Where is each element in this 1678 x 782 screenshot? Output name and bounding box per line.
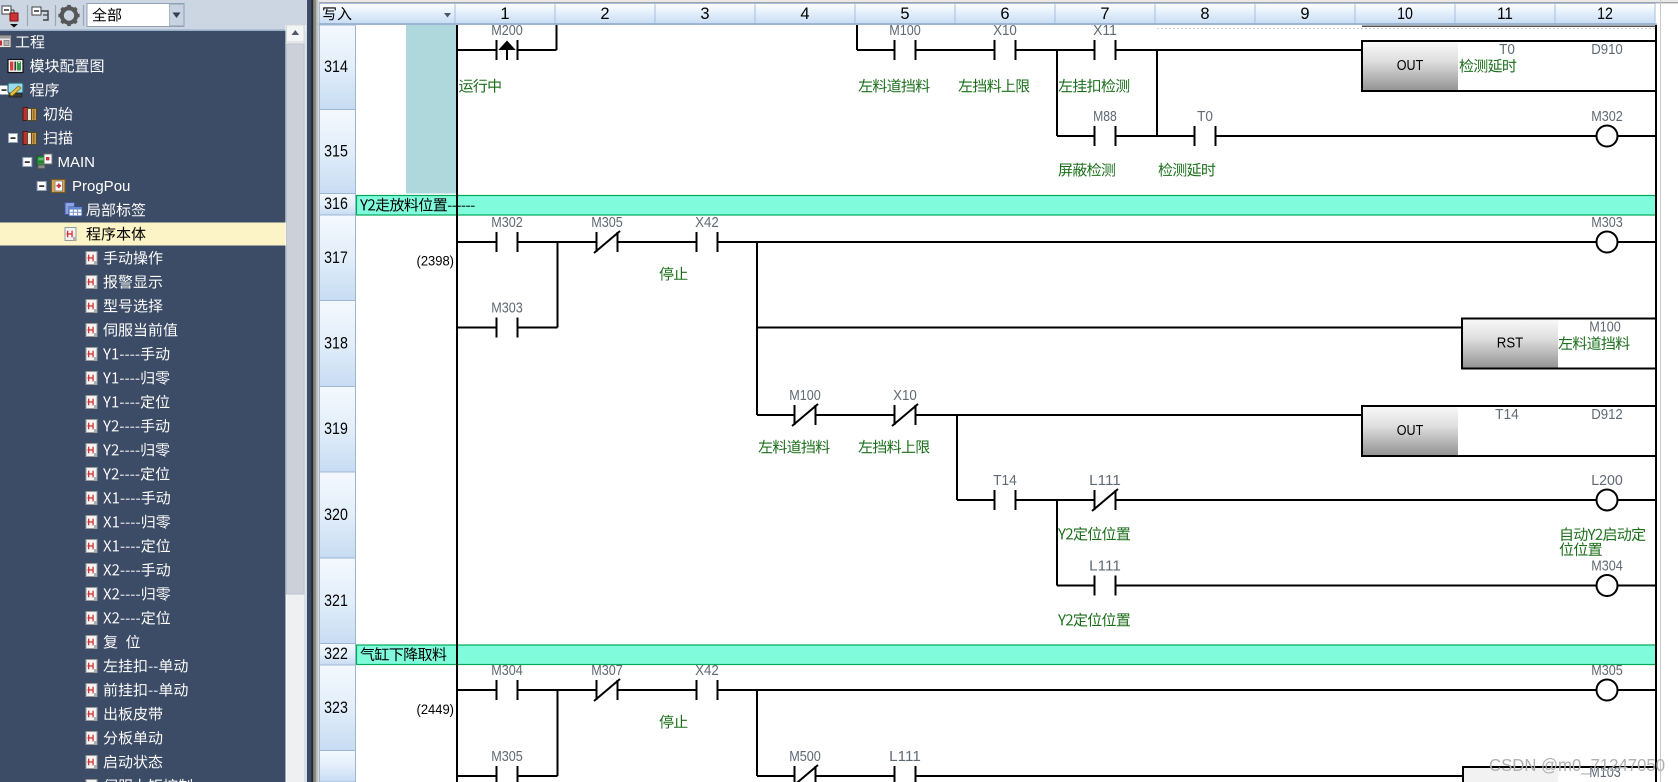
contact M302 [498, 240, 517, 245]
contact M200 rising edge [498, 48, 517, 53]
svg-text:X42: X42 [695, 215, 719, 231]
wire: branch vertical col1/2 [557, 242, 559, 328]
svg-text:M305: M305 [491, 749, 523, 765]
svg-text:11: 11 [1497, 5, 1513, 23]
wire: junction down to row315 (col6) [1056, 50, 1058, 136]
svg-text:M303: M303 [491, 301, 523, 317]
svg-text:9: 9 [1300, 5, 1309, 23]
svg-text:M304: M304 [1591, 559, 1623, 575]
contact T14 [996, 498, 1015, 503]
wire: branch M305 [457, 775, 558, 777]
svg-text:MAIN: MAIN [58, 154, 96, 171]
svg-text:M303: M303 [1591, 215, 1623, 231]
svg-text:OUT: OUT [1397, 423, 1424, 439]
coil L200 [1597, 490, 1618, 511]
svg-text:X10: X10 [993, 23, 1017, 39]
contact M303 [498, 325, 517, 330]
contact X42 [698, 240, 717, 245]
svg-text:T0: T0 [1499, 42, 1515, 58]
toolbar combo box "全部" [87, 4, 184, 27]
svg-text:L111: L111 [889, 749, 921, 765]
contact X10 NC [896, 413, 915, 418]
svg-text:M100: M100 [789, 388, 821, 404]
svg-text:10: 10 [1397, 5, 1413, 23]
svg-text:M100: M100 [889, 23, 921, 39]
wire: branch vertical col1/2 down [557, 690, 559, 776]
wire: row319 main [757, 414, 1362, 416]
coil M302 [1597, 126, 1618, 147]
OUT T0 D910 box [1362, 41, 1656, 91]
svg-text:1: 1 [500, 5, 509, 23]
svg-text:322: 322 [324, 645, 348, 663]
contact M307 NC [598, 688, 617, 693]
svg-text:T0: T0 [1197, 109, 1213, 125]
contact M304 [498, 688, 517, 693]
svg-text:317: 317 [324, 249, 348, 267]
wire: junction down to row320 [956, 415, 958, 500]
contact M100 NC [796, 413, 815, 418]
svg-text:315: 315 [324, 143, 348, 161]
contact T0 [1196, 134, 1215, 139]
toolbar icon: collapse-tree with PLC [2, 6, 18, 28]
svg-text:ProgPou: ProgPou [72, 178, 130, 195]
contact L111 [1096, 583, 1115, 588]
svg-text:D912: D912 [1591, 407, 1623, 423]
wire: junction vertical col3/4 down to row319 [756, 242, 758, 415]
contact L111 (3) [896, 774, 915, 779]
OUT T14 D912 box [1362, 406, 1656, 456]
contact L111 NC [1096, 498, 1115, 503]
wire: junction vertical col3/4 down [756, 690, 758, 776]
svg-text:M200: M200 [491, 23, 523, 39]
wire: row320 main [957, 499, 1656, 501]
contact M100 [896, 48, 915, 53]
svg-text:OUT: OUT [1397, 58, 1424, 74]
coil M304 [1597, 575, 1618, 596]
svg-text:3: 3 [700, 5, 709, 23]
svg-text:RST: RST [1497, 336, 1524, 352]
contact X42 (2) [698, 688, 717, 693]
svg-text:X11: X11 [1093, 23, 1117, 39]
wire: row321 main [1057, 585, 1656, 587]
contact M88 [1096, 134, 1115, 139]
SET M103 box (partial) [1463, 767, 1656, 782]
svg-text:5: 5 [900, 5, 909, 23]
svg-text:318: 318 [324, 335, 348, 353]
svg-text:L111: L111 [1089, 559, 1121, 575]
wire: main line row314 [857, 49, 1362, 51]
svg-text:4: 4 [800, 5, 809, 23]
svg-text:X10: X10 [893, 388, 917, 404]
svg-text:314: 314 [324, 58, 348, 76]
contact X11 [1096, 48, 1115, 53]
svg-text:M302: M302 [491, 215, 523, 231]
svg-text:T14: T14 [993, 473, 1017, 489]
toolbar icon: expand-tree [32, 7, 48, 20]
wire: row317 main [457, 241, 1656, 243]
wire: junction down to row315 (col7) [1156, 50, 1158, 136]
svg-text:7: 7 [1100, 5, 1109, 23]
svg-text:M500: M500 [789, 749, 821, 765]
coil M305 [1597, 680, 1618, 701]
svg-text:L111: L111 [1089, 473, 1121, 489]
wire: left rail to M200 branch [457, 49, 557, 51]
wire: row315 main [1057, 135, 1656, 137]
svg-text:(2398): (2398) [417, 253, 455, 269]
wire: branch up at col1/2 [556, 25, 558, 50]
left power rail [456, 25, 458, 782]
contact M500 NC [796, 774, 815, 779]
svg-text:321: 321 [324, 592, 348, 610]
wire: to RST box [757, 327, 1462, 329]
svg-text:D910: D910 [1591, 42, 1623, 58]
svg-text:M88: M88 [1093, 109, 1117, 125]
svg-text:323: 323 [324, 699, 348, 717]
svg-text:12: 12 [1597, 5, 1613, 23]
RST M100 box [1462, 319, 1656, 369]
svg-text:M305: M305 [591, 215, 623, 231]
wire: parallel branch M303 [457, 327, 558, 329]
toolbar icon: gear [58, 5, 79, 26]
wire: row323 main [457, 689, 1656, 691]
svg-text:M305: M305 [1591, 663, 1623, 679]
svg-text:319: 319 [324, 420, 348, 438]
svg-text:T14: T14 [1495, 407, 1519, 423]
svg-text:M304: M304 [491, 663, 523, 679]
wire: row324 main [757, 775, 1463, 777]
svg-text:M302: M302 [1591, 109, 1623, 125]
svg-text:320: 320 [324, 506, 348, 524]
svg-text:L200: L200 [1591, 473, 1623, 489]
svg-text:316: 316 [324, 195, 348, 213]
svg-text:(2449): (2449) [417, 701, 455, 717]
wire: junction down to row321 [1056, 500, 1058, 586]
svg-text:M307: M307 [591, 663, 623, 679]
svg-text:M100: M100 [1589, 320, 1621, 336]
svg-text:CSDN @m0_71247050: CSDN @m0_71247050 [1489, 755, 1665, 776]
svg-text:8: 8 [1200, 5, 1209, 23]
wire: branch down from above at col4/5 [856, 25, 858, 50]
contact X10 [996, 48, 1015, 53]
contact M305 (2) [498, 774, 517, 779]
right power rail [1655, 25, 1657, 782]
svg-text:2: 2 [600, 5, 609, 23]
remnant: bottom edge of rung-313 OUT box [1362, 26, 1656, 27]
svg-text:6: 6 [1000, 5, 1009, 23]
contact M305 NC [598, 240, 617, 245]
svg-text:X42: X42 [695, 663, 719, 679]
coil M303 [1597, 232, 1618, 253]
